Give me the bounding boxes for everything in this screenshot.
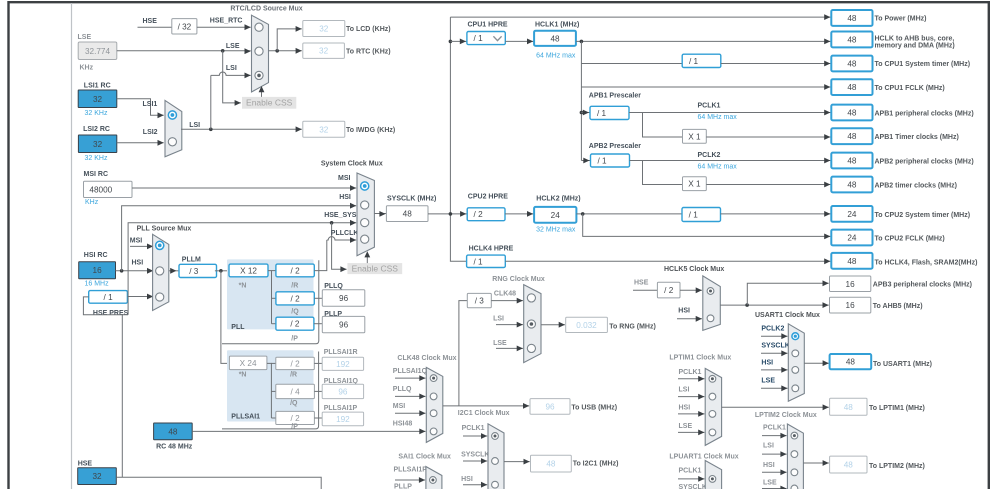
- wire LSI stub lptim2: [762, 453, 787, 455]
- arrow CLK48 into RNG mux: [517, 298, 523, 304]
- HSE oscillator box: [78, 468, 117, 485]
- arrow HSI48 into CLK48 mux: [419, 429, 425, 435]
- APB1 timer X1 box: [683, 129, 707, 143]
- svg-text:CLK48 Clock Mux: CLK48 Clock Mux: [397, 355, 456, 362]
- svg-text:To I2C1 (MHz): To I2C1 (MHz): [573, 461, 619, 468]
- arrow into APB3 box: [823, 280, 829, 286]
- svg-text:CPU2 HPRE: CPU2 HPRE: [468, 194, 508, 201]
- arrow HSI into LPTIM2 mux: [780, 469, 786, 475]
- svg-text:HSE_SYS: HSE_SYS: [324, 212, 357, 219]
- svg-text:PLLSAI1Q: PLLSAI1Q: [324, 378, 359, 385]
- svg-text:/ 1: / 1: [597, 157, 607, 166]
- svg-text:APB2 timer clocks (MHz): APB2 timer clocks (MHz): [875, 182, 957, 189]
- PLL /Q divider box: [276, 292, 314, 305]
- svg-text:LSI: LSI: [189, 122, 200, 129]
- mux LPUART1: [705, 461, 721, 490]
- CPU1 HPRE dropdown chevron: [493, 36, 501, 40]
- arrow PCLK2 into USART1 mux: [781, 333, 787, 339]
- mux RTC/LCD source: [252, 15, 269, 92]
- svg-text:PLLM: PLLM: [182, 256, 201, 263]
- wire CLK48 out to USB: [443, 405, 529, 407]
- svg-text:48: 48: [844, 403, 854, 412]
- output To RTC box: [303, 43, 345, 58]
- svg-text:64 MHz max: 64 MHz max: [698, 164, 738, 171]
- wire /32 to RTC mux: [197, 26, 251, 28]
- junction HCLK1: [580, 40, 584, 44]
- arrow into To RTC box: [296, 48, 302, 54]
- CPU1 HPRE /1 dropdown box: [467, 32, 505, 45]
- CPU2 systimer /1 divider box: [682, 208, 721, 222]
- arrow into To LCD box: [296, 26, 302, 32]
- arrow LSI into RNG mux: [517, 322, 523, 328]
- PLL /R divider box: [276, 264, 314, 277]
- svg-text:HSE: HSE: [143, 18, 158, 25]
- wire PLL group outline: [222, 260, 319, 344]
- LSI2 RC oscillator box: [78, 135, 116, 153]
- svg-text:PCLK1: PCLK1: [679, 468, 702, 475]
- output To CPU1 FCLK box: [831, 79, 872, 95]
- svg-text:LSI1 RC: LSI1 RC: [84, 83, 111, 90]
- CPU2 HPRE /2 box: [467, 208, 505, 221]
- svg-text:16: 16: [846, 301, 856, 310]
- svg-text:APB1 Prescaler: APB1 Prescaler: [589, 92, 641, 99]
- junction LSI: [209, 128, 213, 132]
- wire PLLSAI1P stub: [395, 479, 425, 481]
- APB1 /1 prescaler box: [590, 106, 629, 119]
- svg-text:16: 16: [93, 266, 103, 275]
- svg-text:48: 48: [546, 460, 556, 469]
- svg-text:HCLK5 Clock Mux: HCLK5 Clock Mux: [664, 266, 724, 273]
- svg-text:To LPTIM1 (MHz): To LPTIM1 (MHz): [869, 405, 925, 412]
- arrow into PLLM: [170, 268, 176, 274]
- svg-text:/P: /P: [291, 336, 298, 343]
- wire HSE PRES input: [83, 297, 128, 315]
- output To LPTIM1 box: [830, 398, 867, 415]
- svg-text:/ 2: / 2: [291, 267, 301, 276]
- mux LSI source: [165, 100, 182, 156]
- svg-text:APB2 peripheral clocks (MHz): APB2 peripheral clocks (MHz): [875, 158, 974, 165]
- wire HSE riser to HSE_SYS: [128, 223, 356, 315]
- junction LSE: [221, 49, 225, 53]
- arrow into USART1 box: [823, 360, 829, 366]
- wire PLLR to PLLCLK riser: [314, 240, 327, 271]
- HCLK2 value box: [534, 207, 576, 223]
- svg-text:32: 32: [93, 140, 103, 149]
- wire PCLK1 stub lpuart1: [678, 478, 704, 480]
- svg-text:/ 2: / 2: [291, 414, 301, 423]
- svg-text:48: 48: [846, 358, 856, 367]
- mux RNG clock: [524, 285, 541, 363]
- CPU1 systimer /1 divider box: [682, 54, 721, 67]
- svg-text:APB2 Prescaler: APB2 Prescaler: [589, 143, 641, 150]
- svg-text:KHz: KHz: [80, 65, 94, 72]
- arrow into CPU2 FCLK box: [824, 234, 830, 240]
- svg-text:RC 48 MHz: RC 48 MHz: [156, 443, 193, 450]
- wire /2 to HCLK5 mux: [680, 289, 702, 291]
- svg-text:LSE: LSE: [226, 43, 240, 50]
- output APB1 timer box: [831, 128, 872, 144]
- HCLK5 /2 divider box: [657, 282, 680, 298]
- svg-text:/P: /P: [291, 423, 298, 430]
- arrow PLLCLK into system mux: [350, 237, 356, 243]
- arrow HSI into HCLK5 mux: [696, 316, 702, 322]
- PLL /P divider box: [276, 317, 314, 330]
- svg-text:PCLK1: PCLK1: [679, 369, 702, 376]
- svg-text:48: 48: [847, 83, 857, 92]
- LSE oscillator box: [78, 42, 117, 60]
- svg-text:/ 1: / 1: [689, 211, 699, 220]
- wire APB1 to X1: [643, 113, 683, 138]
- arrow LSE into RNG mux: [517, 346, 523, 352]
- arrow enable css sys up: [364, 251, 370, 257]
- svg-text:To LCD (KHz): To LCD (KHz): [346, 26, 391, 33]
- wire PLLCLK to system mux (hop): [327, 237, 356, 240]
- svg-text:48: 48: [847, 132, 857, 141]
- arrow into LPTIM2 box: [823, 460, 829, 466]
- MSI RC oscillator box: [84, 181, 133, 197]
- wire CPU2 systimer out: [721, 213, 831, 215]
- PLLM /3 divider box: [179, 264, 217, 277]
- arrow PCLK1 into LPTIM2 mux: [780, 433, 786, 439]
- svg-text:MSI RC: MSI RC: [84, 171, 109, 178]
- arrow enable css rtc up: [259, 86, 265, 92]
- svg-text:48000: 48000: [89, 185, 112, 194]
- svg-text:48: 48: [847, 36, 857, 45]
- wire LSE to RTC mux: [117, 50, 251, 52]
- svg-text:24: 24: [847, 210, 857, 219]
- wire PLLSAI1Q out: [314, 390, 322, 392]
- wire LPTIM2 out: [803, 462, 828, 464]
- wire SYSCLK to CPU2 HPRE: [428, 213, 467, 215]
- wire PLL mux to PLLM: [169, 270, 179, 272]
- svg-text:LSE: LSE: [493, 340, 507, 347]
- mux system clock: [357, 173, 374, 256]
- PLLSAI1 /Q divider box: [276, 384, 315, 398]
- wire to CPU1 systimer divider: [581, 63, 682, 65]
- wire HCLK5 out: [720, 304, 828, 306]
- wire X12 to dividers: [268, 271, 272, 324]
- output To RNG box: [566, 317, 608, 332]
- arrow LSE into RTC mux: [245, 48, 251, 54]
- junction HSE_SYS css: [330, 221, 334, 225]
- wire HSI stub lptim2: [762, 471, 787, 473]
- wire bus to To Power: [450, 16, 830, 18]
- svg-text:LPUART1 Clock Mux: LPUART1 Clock Mux: [669, 454, 738, 461]
- wire PCLK2 stub usart1: [761, 335, 788, 337]
- arrow HSI into I2C1 mux: [481, 482, 487, 488]
- wire HSE PRES output to PLL mux: [127, 296, 153, 298]
- wire HSI stub lptim1: [678, 413, 704, 415]
- svg-text:USART1 Clock Mux: USART1 Clock Mux: [755, 312, 820, 319]
- wire bus to CPU1 HPRE: [450, 40, 467, 42]
- svg-text:X 24: X 24: [240, 359, 257, 368]
- arrow LSI1 into mux: [158, 112, 164, 118]
- SYSCLK value box: [386, 206, 428, 222]
- svg-text:/ 1: / 1: [104, 293, 114, 302]
- wire PCLK1 stub lptim2: [762, 435, 787, 437]
- svg-text:16 MHz: 16 MHz: [85, 280, 110, 287]
- output To USART1 box: [830, 354, 872, 369]
- output To HCLK4 box: [831, 253, 872, 269]
- wire PLLQ stub: [395, 395, 426, 397]
- wire to /P: [272, 323, 276, 325]
- svg-text:48: 48: [847, 257, 857, 266]
- svg-text:48: 48: [847, 14, 857, 23]
- arrow LSE into USART1 mux: [781, 385, 787, 391]
- arrow into CPU2 systimer box: [824, 211, 830, 217]
- PLL block background: [227, 259, 314, 329]
- svg-text:To AHB5 (MHz): To AHB5 (MHz): [873, 303, 923, 310]
- svg-text:32 MHz max: 32 MHz max: [536, 227, 576, 234]
- svg-text:/ 1: / 1: [474, 34, 484, 43]
- svg-text:APB1 Timer clocks (MHz): APB1 Timer clocks (MHz): [875, 134, 959, 141]
- arrow into APB1 periph box: [824, 110, 830, 116]
- svg-text:HSE: HSE: [78, 461, 93, 468]
- svg-text:48: 48: [847, 157, 857, 166]
- svg-text:To CPU1 System timer (MHz): To CPU1 System timer (MHz): [875, 61, 971, 68]
- wire HCLK2 to systimer divider: [576, 213, 682, 215]
- wire /3 to RNG mux: [491, 300, 523, 302]
- mux CLK48: [426, 367, 443, 442]
- wire HSE_SYS to Enable CSS: [332, 223, 347, 269]
- wire HSE bottom run: [116, 477, 321, 489]
- wire to /Q: [272, 297, 276, 299]
- divider /32 box: [172, 19, 197, 34]
- svg-text:HCLK4 HPRE: HCLK4 HPRE: [469, 245, 514, 252]
- svg-text:/ 3: / 3: [475, 297, 485, 306]
- output APB2 timer box: [831, 177, 872, 193]
- svg-text:HSE_RTC: HSE_RTC: [210, 18, 243, 25]
- output To USB box: [530, 399, 570, 415]
- svg-text:PCLK1: PCLK1: [763, 424, 786, 431]
- PLLQ value box: [322, 290, 365, 307]
- svg-text:LPTIM2 Clock Mux: LPTIM2 Clock Mux: [755, 412, 817, 419]
- arrow HSI into PLL mux: [147, 268, 153, 274]
- wire to APB2 prescaler: [581, 160, 590, 162]
- svg-text:To HCLK4, Flash, SRAM2(MHz): To HCLK4, Flash, SRAM2(MHz): [875, 259, 978, 266]
- arrow SYSCLK into USART1 mux: [781, 350, 787, 356]
- svg-text:KHz: KHz: [85, 199, 99, 206]
- PLLP value box: [322, 316, 365, 332]
- svg-text:96: 96: [339, 294, 349, 303]
- wire APB2 to X1: [643, 161, 683, 185]
- arrow into APB2 timer box: [824, 182, 830, 188]
- RC 48 oscillator box: [154, 423, 193, 440]
- svg-text:LSI: LSI: [226, 65, 237, 72]
- svg-text:To LPTIM2 (MHz): To LPTIM2 (MHz): [869, 463, 925, 470]
- APB2 /1 prescaler box: [591, 154, 630, 167]
- arrow into CPU1 systimer box: [824, 61, 830, 67]
- wire to CPU1 FCLK: [581, 86, 830, 88]
- wire APB2 out: [630, 160, 831, 162]
- wire SYSCLK stub i2c1: [463, 460, 487, 462]
- svg-text:HSI: HSI: [678, 307, 690, 314]
- svg-text:/ 3: / 3: [189, 267, 199, 276]
- svg-text:RTC/LCD Source Mux: RTC/LCD Source Mux: [230, 6, 302, 13]
- HSI RC oscillator box: [79, 262, 116, 279]
- junction PLLM out: [219, 269, 223, 273]
- arrow PCLK1 into LPUART1 mux: [698, 476, 704, 482]
- wire X24 to dividers: [267, 363, 272, 418]
- svg-text:SYSCLK: SYSCLK: [679, 484, 707, 489]
- wire LSI mux to IWDG: [181, 128, 302, 130]
- mux LPTIM2: [787, 424, 803, 490]
- wire HSI stub to HCLK5 mux: [677, 318, 702, 320]
- svg-text:I2C1 Clock Mux: I2C1 Clock Mux: [458, 410, 510, 417]
- svg-text:192: 192: [336, 360, 350, 369]
- svg-text:PLL Source Mux: PLL Source Mux: [137, 226, 192, 233]
- wire RTC mux to To RTC: [269, 50, 302, 52]
- wire PCLK1 stub i2c1: [463, 435, 487, 437]
- arrow into APB1 prescaler: [583, 110, 589, 116]
- svg-text:To Power (MHz): To Power (MHz): [875, 15, 927, 22]
- wire RC48 to CLK48 mux: [192, 430, 425, 432]
- junction HSI: [120, 269, 124, 273]
- mux PLL source: [153, 234, 169, 310]
- wire HCLK1 to AHB output: [576, 40, 831, 42]
- svg-text:HSE PRES: HSE PRES: [93, 310, 129, 317]
- svg-text:HSI: HSI: [763, 462, 775, 469]
- arrow into HCLK2 box: [527, 211, 533, 217]
- output To CPU2 System timer box: [831, 206, 872, 222]
- svg-text:PLLSAI1P: PLLSAI1P: [394, 467, 428, 474]
- svg-text:LPTIM1 Clock Mux: LPTIM1 Clock Mux: [669, 354, 731, 361]
- svg-text:24: 24: [551, 211, 561, 220]
- wire to /R: [272, 270, 276, 272]
- svg-text:32 KHz: 32 KHz: [85, 155, 108, 162]
- wire HCLK5 to APB3: [747, 283, 828, 305]
- svg-text:192: 192: [336, 415, 350, 424]
- wire to SAI /Q: [271, 390, 275, 392]
- wire HSE stub to /2: [633, 289, 657, 291]
- PLLSAI1Q value box: [322, 384, 363, 398]
- wire LSI up to RTC mux: [210, 75, 212, 129]
- arrow PCLK1 into I2C1 mux: [481, 433, 487, 439]
- svg-text:48: 48: [847, 60, 857, 69]
- output APB1 peripheral box: [831, 105, 872, 121]
- arrow HSE into HCLK5 mux: [696, 287, 702, 293]
- svg-text:PLLP: PLLP: [394, 484, 412, 490]
- arrow into LPTIM1 box: [823, 404, 829, 410]
- wire LSI2 to LSI mux: [117, 142, 164, 144]
- output HCLK AHB box: [831, 32, 872, 48]
- wire I2C1 out: [504, 461, 530, 463]
- svg-text:PLLSAI1: PLLSAI1: [231, 414, 260, 421]
- svg-text:To RNG (MHz): To RNG (MHz): [609, 324, 656, 331]
- svg-text:/ 2: / 2: [474, 210, 484, 219]
- svg-text:PLLQ: PLLQ: [393, 386, 412, 393]
- arrow into APB1 timer box: [824, 134, 830, 140]
- wire system mux to SYSCLK box: [374, 213, 386, 215]
- wire MSI stub: [395, 412, 426, 414]
- wire CPU1 systimer out: [721, 63, 831, 65]
- PLL xN multiplier box: [229, 264, 268, 277]
- arrow LSI2 into mux: [158, 140, 164, 146]
- arrow into I2C1 box: [524, 459, 530, 465]
- svg-text:To USB (MHz): To USB (MHz): [571, 405, 617, 412]
- wire HSI up to system mux: [122, 206, 357, 271]
- arrow into CPU2 HPRE: [460, 211, 466, 217]
- svg-text:HSI: HSI: [339, 194, 351, 201]
- svg-text:RNG Clock Mux: RNG Clock Mux: [492, 276, 545, 283]
- arrow PLLQ into CLK48 mux: [419, 394, 425, 400]
- wire HSI stub i2c1: [463, 484, 487, 486]
- output To LPTIM2 box: [830, 456, 867, 473]
- svg-text:/ 2: / 2: [290, 320, 300, 329]
- arrow into To Power box: [824, 14, 830, 20]
- wire LSE stub usart1: [761, 387, 788, 389]
- wire LSI to RTC mux (hop): [211, 72, 251, 75]
- wire LSI stub to RNG mux: [496, 324, 523, 326]
- svg-text:LSE: LSE: [679, 423, 693, 430]
- arrow HSE_RTC into RTC mux: [245, 24, 251, 30]
- svg-text:32: 32: [93, 95, 103, 104]
- svg-text:24: 24: [847, 234, 857, 243]
- svg-text:PCLK1: PCLK1: [698, 102, 721, 109]
- svg-text:HSI48: HSI48: [393, 421, 413, 428]
- svg-text:/ 2: / 2: [664, 286, 674, 295]
- wire X1 to APB2 timer out: [706, 184, 830, 186]
- wire PLLSAI1P out: [314, 417, 322, 419]
- wire LPTIM1 out: [722, 406, 829, 408]
- svg-text:HSE: HSE: [634, 279, 649, 286]
- wire HSI stub usart1: [761, 369, 788, 371]
- svg-text:96: 96: [338, 388, 348, 397]
- wire PLLSAI1 group outline: [222, 352, 319, 429]
- HCLK1 value box: [534, 31, 576, 46]
- wire LSE stub to RNG mux: [496, 347, 523, 349]
- wire APB1 out: [629, 112, 830, 114]
- PLLSAI1 /R divider box: [276, 357, 315, 369]
- arrow into CPU1 FCLK box: [824, 84, 830, 90]
- wire CPU2 HPRE to HCLK2: [505, 213, 534, 215]
- output To CPU1 System timer box: [831, 56, 872, 72]
- output AHB5 box: [830, 297, 871, 313]
- RNG /3 divider box: [467, 293, 491, 307]
- svg-text:MSI: MSI: [338, 175, 351, 182]
- svg-text:16: 16: [846, 280, 856, 289]
- svg-text:HCLK1 (MHz): HCLK1 (MHz): [535, 22, 579, 29]
- arrow LSI into LPTIM2 mux: [780, 451, 786, 457]
- svg-text:PCLK2: PCLK2: [698, 152, 721, 159]
- PLLSAI1R value box: [322, 357, 363, 370]
- arrow MSI into PLL mux: [147, 244, 153, 250]
- svg-text:LSE: LSE: [78, 34, 92, 41]
- enable css rtc button: [242, 97, 296, 109]
- svg-text:0.032: 0.032: [576, 321, 597, 330]
- output To Power box: [831, 10, 872, 26]
- svg-text:To USART1 (MHz): To USART1 (MHz): [873, 361, 932, 368]
- svg-text:/ 2: / 2: [291, 294, 301, 303]
- svg-text:MSI: MSI: [130, 237, 143, 244]
- svg-text:48: 48: [844, 461, 854, 470]
- svg-text:/ 1: / 1: [473, 257, 483, 266]
- arrow into To IWDG box: [296, 126, 302, 132]
- output APB3 box: [830, 276, 871, 292]
- PLLSAI1 block background: [227, 350, 314, 421]
- wire HSI to PLL mux: [116, 270, 154, 272]
- svg-text:*N: *N: [239, 371, 247, 378]
- mux SAI1: [426, 467, 442, 490]
- wire RTC mux to To LCD: [277, 29, 302, 51]
- svg-text:LSI2 RC: LSI2 RC: [83, 126, 110, 133]
- svg-text:/R: /R: [291, 283, 298, 290]
- svg-text:/ 2: / 2: [291, 359, 301, 368]
- wire HCLK2 to CPU2 FCLK: [583, 214, 831, 237]
- svg-text:/R: /R: [290, 371, 297, 378]
- junction hclk1 apb1: [580, 111, 584, 115]
- mux HCLK5: [703, 276, 721, 331]
